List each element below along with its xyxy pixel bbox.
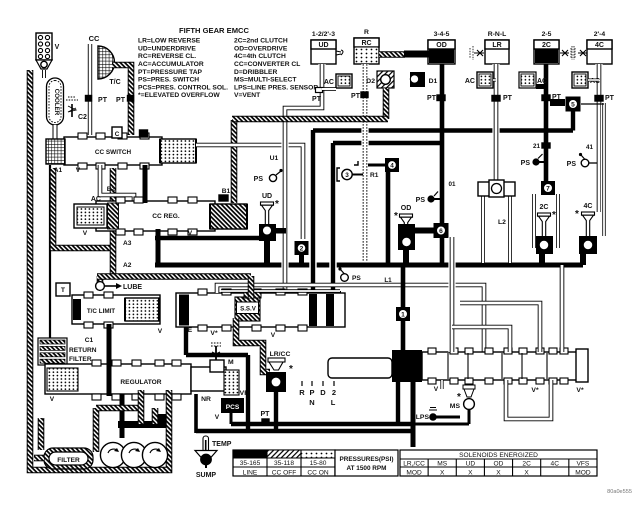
svg-text:OD: OD: [436, 42, 447, 49]
svg-text:LPS=LINE PRES. SENSOR: LPS=LINE PRES. SENSOR: [234, 84, 318, 91]
svg-text:*: *: [275, 199, 279, 210]
svg-text:COOLER: COOLER: [53, 89, 60, 116]
svg-text:PS=PRES. SWITCH: PS=PRES. SWITCH: [138, 77, 199, 84]
svg-text:R: R: [364, 29, 369, 36]
svg-text:UD: UD: [466, 461, 476, 468]
svg-text:CC: CC: [89, 34, 100, 43]
svg-text:2C: 2C: [540, 204, 549, 211]
svg-text:V*: V*: [210, 330, 218, 337]
svg-text:41: 41: [586, 144, 594, 151]
svg-text:V: V: [215, 414, 220, 421]
svg-text:15-80: 15-80: [310, 460, 327, 467]
svg-text:1-2/2'-3: 1-2/2'-3: [312, 31, 335, 38]
svg-text:X: X: [524, 470, 529, 477]
svg-text:01: 01: [448, 181, 456, 188]
svg-text:4C: 4C: [584, 203, 593, 210]
svg-text:2C: 2C: [542, 42, 551, 49]
svg-text:B1: B1: [222, 188, 231, 195]
svg-text:MS=MULTI-SELECT: MS=MULTI-SELECT: [234, 77, 297, 84]
svg-text:FILTER: FILTER: [69, 356, 92, 363]
svg-text:2: 2: [332, 388, 336, 397]
svg-text:V=VENT: V=VENT: [234, 92, 261, 99]
svg-text:MOD: MOD: [406, 470, 422, 477]
svg-text:35-165: 35-165: [240, 460, 261, 467]
svg-text:1: 1: [401, 311, 405, 318]
svg-text:D=DRIBBLER: D=DRIBBLER: [234, 69, 277, 76]
svg-text:LPS: LPS: [416, 414, 430, 421]
svg-text:X: X: [496, 470, 501, 477]
svg-text:C: C: [115, 131, 120, 138]
svg-text:PT: PT: [312, 96, 322, 103]
svg-text:PRESSURES(PSI): PRESSURES(PSI): [340, 456, 394, 463]
svg-text:2C: 2C: [522, 461, 531, 468]
svg-text:V: V: [76, 167, 81, 174]
svg-text:CC REG.: CC REG.: [152, 213, 180, 220]
svg-text:MOD: MOD: [575, 470, 591, 477]
svg-text:PT: PT: [605, 95, 615, 102]
svg-text:6: 6: [439, 228, 443, 235]
svg-text:RC: RC: [361, 40, 371, 47]
svg-text:V: V: [158, 328, 163, 335]
svg-text:MS: MS: [437, 461, 447, 468]
svg-text:C2: C2: [78, 114, 87, 121]
svg-text:PCS=PRES. CONTROL SOL.: PCS=PRES. CONTROL SOL.: [138, 84, 228, 91]
svg-text:V: V: [83, 230, 88, 237]
svg-text:2C=2nd CLUTCH: 2C=2nd CLUTCH: [234, 38, 288, 45]
svg-text:PS: PS: [521, 160, 531, 167]
svg-text:AT 1500 RPM: AT 1500 RPM: [346, 465, 386, 472]
svg-text:TEMP: TEMP: [212, 441, 232, 448]
svg-text:T/C: T/C: [109, 79, 120, 86]
svg-text:LR,/CC: LR,/CC: [403, 461, 425, 468]
svg-text:R1: R1: [370, 172, 379, 179]
svg-text:RC=REVERSE CL.: RC=REVERSE CL.: [138, 53, 196, 60]
svg-text:CC ON: CC ON: [307, 470, 328, 477]
svg-text:N: N: [309, 398, 314, 407]
svg-text:LUBE: LUBE: [123, 284, 142, 291]
svg-text:T/C LIMIT: T/C LIMIT: [87, 308, 115, 315]
svg-text:PT: PT: [503, 95, 513, 102]
svg-text:AC: AC: [324, 79, 334, 86]
svg-text:PCS: PCS: [226, 404, 240, 411]
svg-text:OD: OD: [401, 205, 412, 212]
svg-text:NR: NR: [201, 396, 211, 403]
svg-text:S.S.V: S.S.V: [240, 306, 257, 313]
svg-text:PT: PT: [351, 93, 361, 100]
svg-text:AC: AC: [537, 78, 547, 85]
svg-text:VFS: VFS: [576, 461, 589, 468]
svg-text:LR/CC: LR/CC: [270, 351, 291, 358]
svg-text:4C: 4C: [551, 461, 560, 468]
svg-text:RETURN: RETURN: [69, 347, 97, 354]
svg-text:PS: PS: [352, 275, 361, 282]
svg-text:2: 2: [300, 245, 304, 252]
svg-text:*: *: [575, 209, 579, 220]
svg-text:D1: D1: [429, 78, 438, 85]
svg-text:OD=OVERDRIVE: OD=OVERDRIVE: [234, 45, 288, 52]
svg-text:E: E: [188, 327, 193, 334]
svg-text:*=ELEVATED OVERFLOW: *=ELEVATED OVERFLOW: [138, 92, 220, 99]
svg-text:V: V: [271, 332, 276, 339]
svg-text:SOLENOIDS ENERGIZED: SOLENOIDS ENERGIZED: [459, 452, 538, 459]
svg-text:L: L: [331, 398, 336, 407]
svg-text:L2: L2: [498, 219, 506, 226]
svg-text:UD: UD: [318, 42, 328, 49]
svg-text:PS: PS: [254, 176, 264, 183]
svg-text:OD: OD: [494, 461, 504, 468]
svg-text:X: X: [440, 470, 445, 477]
svg-text:AC=ACCUMULATOR: AC=ACCUMULATOR: [138, 61, 204, 68]
svg-text:REGULATOR: REGULATOR: [120, 379, 161, 386]
svg-text:V: V: [55, 44, 60, 51]
svg-text:A3: A3: [123, 240, 132, 247]
svg-text:80a0e555: 80a0e555: [607, 489, 632, 495]
svg-text:FIFTH GEAR EMCC: FIFTH GEAR EMCC: [179, 26, 250, 35]
svg-text:MS: MS: [450, 403, 461, 410]
svg-text:*: *: [289, 364, 293, 375]
svg-text:5: 5: [571, 101, 575, 108]
svg-text:M: M: [228, 359, 234, 366]
svg-text:PS: PS: [567, 161, 577, 168]
svg-text:3-4-5: 3-4-5: [434, 31, 450, 38]
svg-text:P: P: [309, 388, 314, 397]
svg-text:4C=4th CLUTCH: 4C=4th CLUTCH: [234, 53, 286, 60]
svg-text:A2: A2: [123, 262, 132, 269]
svg-text:UD: UD: [262, 193, 272, 200]
svg-text:CC OFF: CC OFF: [272, 470, 297, 477]
svg-text:PT: PT: [427, 95, 437, 102]
svg-text:PT=PRESSURE TAP: PT=PRESSURE TAP: [138, 69, 203, 76]
svg-text:PT: PT: [98, 97, 108, 104]
svg-text:PT: PT: [261, 411, 271, 418]
svg-text:LR: LR: [492, 42, 501, 49]
svg-text:B2: B2: [107, 186, 116, 193]
svg-text:*: *: [394, 211, 398, 222]
svg-text:PS: PS: [416, 197, 426, 204]
svg-text:CC=CONVERTER CL: CC=CONVERTER CL: [234, 61, 300, 68]
svg-text:CC SWITCH: CC SWITCH: [95, 149, 132, 156]
svg-text:D2: D2: [366, 78, 375, 85]
svg-text:U1: U1: [270, 155, 279, 162]
svg-text:4C: 4C: [595, 42, 604, 49]
svg-text:*: *: [457, 392, 461, 403]
svg-text:C1: C1: [85, 337, 94, 344]
svg-text:AC: AC: [465, 78, 475, 85]
svg-text:UD=UNDERDRIVE: UD=UNDERDRIVE: [138, 45, 196, 52]
svg-text:2-5: 2-5: [542, 31, 552, 38]
svg-text:2'-4: 2'-4: [594, 31, 606, 38]
svg-text:D: D: [320, 388, 326, 397]
svg-text:X: X: [468, 470, 473, 477]
svg-text:3: 3: [345, 172, 349, 179]
svg-text:V*: V*: [576, 387, 584, 394]
svg-text:7: 7: [546, 185, 550, 192]
svg-text:V*: V*: [531, 387, 539, 394]
svg-text:R-N-L: R-N-L: [488, 31, 507, 38]
svg-text:LINE: LINE: [243, 470, 258, 477]
svg-text:V: V: [434, 386, 439, 393]
svg-text:LR=LOW REVERSE: LR=LOW REVERSE: [138, 38, 201, 45]
svg-text:L1: L1: [384, 277, 392, 284]
svg-text:PT: PT: [552, 94, 562, 101]
svg-text:V: V: [50, 396, 55, 403]
svg-text:R: R: [299, 388, 305, 397]
svg-text:PT: PT: [116, 97, 126, 104]
svg-text:4: 4: [390, 162, 394, 169]
svg-text:FILTER: FILTER: [57, 457, 80, 464]
svg-text:SUMP: SUMP: [196, 472, 217, 479]
svg-text:*: *: [552, 210, 556, 221]
svg-text:AC: AC: [91, 196, 101, 203]
svg-text:35-118: 35-118: [274, 460, 294, 467]
svg-text:21: 21: [533, 143, 541, 150]
